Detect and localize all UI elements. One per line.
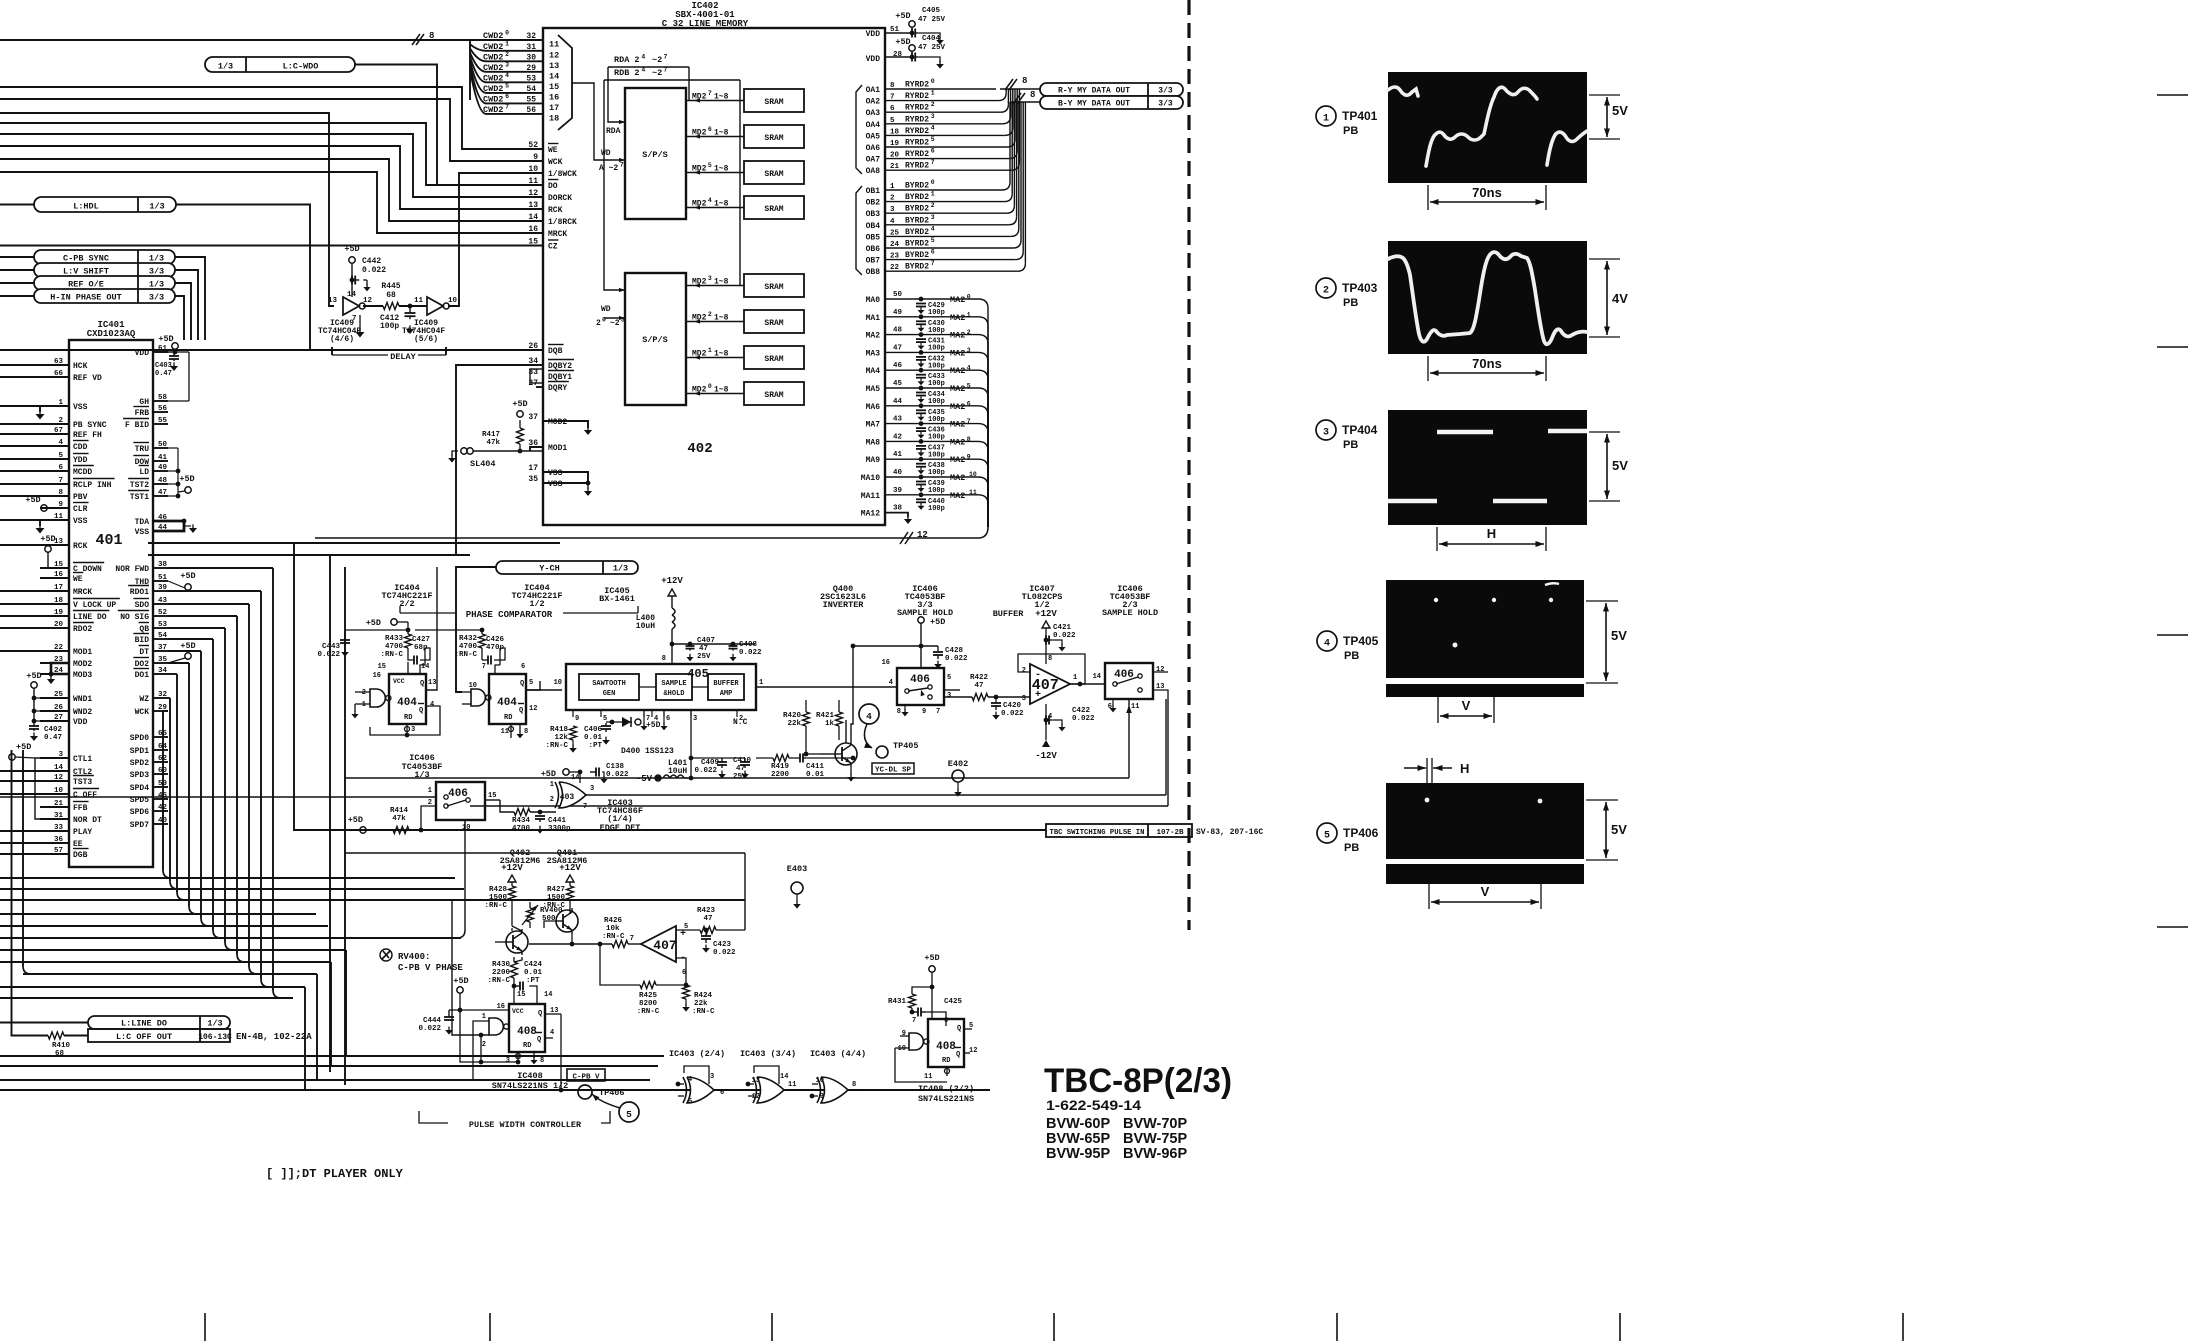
feedback strap MOD2 MOD3 (51, 663, 69, 674)
flip-flop 408 first (509, 1004, 545, 1052)
svg-text:MA4: MA4 (866, 367, 881, 376)
svg-text:100p: 100p (928, 362, 945, 370)
svg-text:SN74LS221NS: SN74LS221NS (918, 1094, 974, 1104)
svg-text:TP406: TP406 (599, 1088, 625, 1098)
svg-text:4: 4 (58, 439, 63, 447)
svg-text:47: 47 (736, 765, 745, 773)
svg-text:+5D: +5D (366, 618, 381, 628)
svg-text:MA2: MA2 (950, 331, 965, 341)
svg-text:26: 26 (528, 342, 538, 351)
svg-text:DT: DT (139, 648, 149, 657)
svg-text::PT: :PT (526, 977, 540, 985)
scope label TP405 (1317, 631, 1337, 651)
svg-text:+5D: +5D (924, 953, 939, 963)
svg-text:SV-83, 207-16C: SV-83, 207-16C (1196, 828, 1263, 837)
svg-text:VDD: VDD (866, 30, 881, 39)
svg-text:Q: Q (957, 1025, 961, 1033)
svg-text:PB: PB (1343, 439, 1358, 451)
svg-text:CWD2: CWD2 (483, 52, 503, 62)
svg-text:+5D: +5D (180, 641, 195, 651)
svg-text:50: 50 (893, 291, 903, 299)
svg-text:L:C OFF OUT: L:C OFF OUT (116, 1032, 172, 1042)
svg-text:2200: 2200 (771, 771, 790, 779)
svg-text:30: 30 (526, 53, 536, 62)
svg-text:403: 403 (560, 793, 575, 802)
svg-text:17: 17 (549, 103, 559, 113)
capacitor C410 47 25V (744, 758, 746, 762)
svg-text:WND2: WND2 (73, 708, 92, 717)
svg-text:OB1: OB1 (866, 187, 881, 196)
svg-text:MA2: MA2 (950, 402, 965, 412)
svg-text:RYRD2: RYRD2 (905, 92, 929, 101)
svg-text::RN-C: :RN-C (545, 742, 568, 750)
svg-text:TRU: TRU (135, 445, 150, 454)
svg-text:32: 32 (158, 691, 168, 699)
diode D400 1SS123 (610, 720, 615, 725)
svg-text:+5D: +5D (541, 769, 556, 779)
svg-text:PHASE COMPARATOR: PHASE COMPARATOR (466, 610, 553, 620)
svg-text:TBC-8P(2/3): TBC-8P(2/3) (1044, 1062, 1232, 1100)
oscillogram photo TP403 (1388, 241, 1587, 354)
svg-text:12k: 12k (554, 734, 568, 742)
svg-text:MA3: MA3 (866, 349, 881, 358)
power +5D TST3 area (9, 754, 15, 760)
svg-text:C410: C410 (733, 757, 752, 765)
svg-text:67: 67 (54, 427, 63, 435)
svg-text:MA2: MA2 (950, 455, 965, 465)
oscillogram photo TP404 (1388, 410, 1587, 525)
H arrow TP406 (1426, 758, 1428, 783)
svg-text:47: 47 (158, 489, 167, 497)
svg-text:100p: 100p (928, 309, 945, 317)
svg-text:21: 21 (54, 800, 64, 808)
svg-text:MA2: MA2 (950, 473, 965, 483)
svg-text:0.022: 0.022 (739, 649, 762, 657)
svg-text:0.022: 0.022 (362, 266, 386, 275)
svg-text:HCK: HCK (73, 362, 88, 371)
svg-text:H: H (1487, 526, 1496, 541)
svg-text:MD2: MD2 (692, 129, 707, 138)
ground pins 7 4 6 (643, 710, 645, 724)
svg-text:TDA: TDA (135, 518, 150, 527)
svg-text:CXD1023AQ: CXD1023AQ (87, 329, 136, 339)
svg-text:SAMPLE HOLD: SAMPLE HOLD (1102, 608, 1158, 618)
label C-PB V box (567, 1069, 605, 1081)
svg-text:BYRD2: BYRD2 (905, 216, 929, 225)
svg-text:BVW-60P: BVW-60P (1046, 1116, 1110, 1132)
5V arrow TP401 (1589, 94, 1620, 96)
svg-text:+5D: +5D (25, 495, 40, 505)
svg-text:RYRD2: RYRD2 (905, 104, 929, 113)
svg-text:A ~2: A ~2 (599, 164, 618, 173)
scope label TP403 (1316, 278, 1336, 298)
svg-text:2: 2 (596, 319, 601, 328)
svg-text:Q: Q (956, 1051, 960, 1059)
svg-text:5: 5 (947, 674, 951, 682)
svg-text:16: 16 (882, 659, 890, 667)
svg-text:DO: DO (548, 182, 558, 191)
svg-text:1: 1 (58, 399, 63, 407)
svg-text:LINE DO: LINE DO (73, 613, 107, 622)
svg-text:56: 56 (526, 106, 536, 115)
svg-text:100p: 100p (928, 505, 945, 513)
svg-text:100p: 100p (928, 398, 945, 406)
svg-text:4: 4 (866, 711, 872, 722)
svg-text:8: 8 (897, 708, 901, 716)
svg-text:20: 20 (54, 621, 64, 629)
svg-text:56: 56 (158, 405, 168, 413)
V arrow TP405 (1437, 697, 1439, 723)
resistor R428 1500 (509, 886, 516, 900)
svg-text:41: 41 (158, 454, 168, 462)
svg-text:8: 8 (1022, 76, 1027, 86)
svg-text:C402: C402 (44, 726, 63, 734)
wire 407-2 +input R423 (676, 929, 700, 931)
connector pill L:C-WDO (205, 57, 355, 72)
svg-text:C443: C443 (322, 643, 341, 651)
svg-text:3: 3 (411, 726, 415, 734)
svg-text:0: 0 (708, 383, 712, 390)
svg-text:8: 8 (58, 489, 63, 497)
wire bundle CWD2 fan (470, 39, 543, 41)
vertical long wires (148, 542, 560, 544)
svg-text:12: 12 (363, 297, 373, 305)
svg-text:7: 7 (931, 159, 935, 166)
svg-text::RN-C: :RN-C (692, 1008, 715, 1016)
capacitor C420 0.022 (995, 697, 997, 703)
svg-text:1: 1 (482, 1013, 486, 1021)
svg-text:25V: 25V (697, 653, 711, 661)
XOR gate IC403 2/4 (687, 1077, 714, 1103)
svg-text:QB: QB (139, 625, 149, 634)
svg-text:VCC: VCC (512, 1008, 524, 1015)
power +5D at C DOWN (45, 546, 51, 552)
resistor R424 22k (683, 985, 690, 999)
svg-text:47 25V: 47 25V (918, 16, 946, 24)
wire pin3 row (460, 1010, 518, 1062)
svg-text:PB: PB (1343, 125, 1358, 137)
svg-text:22k: 22k (694, 1000, 708, 1008)
svg-text:WD: WD (601, 305, 611, 314)
svg-text:1~8: 1~8 (714, 129, 729, 138)
power +5D delay (349, 257, 355, 263)
svg-text:C-PB V: C-PB V (572, 1074, 600, 1082)
svg-text:3: 3 (693, 715, 697, 723)
svg-text:6: 6 (521, 663, 525, 671)
ground VSS pin11 (39, 520, 41, 526)
svg-text:16: 16 (497, 1003, 505, 1011)
svg-text:MA11: MA11 (861, 492, 880, 501)
XOR gate IC403 3/4 (757, 1077, 784, 1103)
svg-text:68: 68 (386, 291, 396, 300)
svg-text:55: 55 (526, 95, 536, 104)
resistor R418 12k (570, 726, 577, 740)
svg-text:CWD2: CWD2 (483, 42, 503, 52)
svg-text:35: 35 (528, 475, 538, 484)
capacitor C441 3300p (539, 815, 541, 817)
svg-text:0: 0 (505, 30, 509, 37)
svg-text:7: 7 (630, 935, 634, 943)
svg-text:53: 53 (526, 74, 536, 83)
svg-text:Q: Q (520, 680, 524, 688)
svg-text:0: 0 (967, 294, 971, 301)
svg-text:10: 10 (898, 1045, 906, 1053)
svg-text:8: 8 (662, 655, 666, 663)
wire into 406-1 (0, 796, 436, 798)
svg-text:MA9: MA9 (866, 456, 881, 465)
svg-text:SRAM: SRAM (764, 355, 783, 364)
CTL pin group strap (35, 758, 69, 819)
svg-text:SL404: SL404 (470, 459, 496, 469)
wire 406 pin3 to R422 (944, 696, 972, 698)
svg-text:12: 12 (969, 1047, 977, 1055)
svg-text:TST3: TST3 (73, 778, 92, 787)
svg-text:407: 407 (653, 938, 676, 953)
svg-text:EDGE DET: EDGE DET (600, 823, 641, 833)
svg-text:1: 1 (708, 347, 712, 354)
svg-text:40: 40 (893, 469, 903, 477)
svg-text:VSS: VSS (73, 517, 88, 526)
svg-text:1: 1 (550, 781, 554, 789)
svg-text:3/3: 3/3 (149, 267, 164, 277)
svg-text:TST1: TST1 (130, 493, 149, 502)
wires 404 first (407, 662, 409, 674)
svg-text:1/3: 1/3 (414, 770, 429, 780)
svg-text:SRAM: SRAM (764, 391, 783, 400)
svg-text:1~8: 1~8 (714, 200, 729, 209)
svg-text:3: 3 (506, 1057, 510, 1065)
svg-text:14: 14 (549, 71, 559, 81)
registration tick marks bottom edge (204, 1313, 206, 1341)
svg-text:OA8: OA8 (866, 167, 881, 176)
wire staircase to IC402 control pins (0, 87, 543, 149)
svg-text:C406: C406 (584, 726, 603, 734)
svg-text:MA12: MA12 (861, 510, 880, 519)
power +5D at IC401 VDD (172, 343, 178, 349)
svg-text:DQBY1: DQBY1 (548, 373, 572, 382)
svg-text:12: 12 (917, 530, 928, 540)
svg-text:RYRD2: RYRD2 (905, 115, 929, 124)
resistor R421 1k (836, 712, 843, 726)
svg-text:1/2: 1/2 (529, 599, 544, 609)
svg-text:+5D: +5D (646, 721, 661, 730)
svg-text:MA2: MA2 (950, 491, 965, 501)
svg-text:12: 12 (1156, 666, 1164, 674)
capacitor C403 0.47 (173, 352, 175, 356)
svg-text:CZ: CZ (548, 243, 558, 252)
svg-text:MOD2: MOD2 (73, 660, 92, 669)
svg-text:1/3: 1/3 (207, 1019, 222, 1029)
resistor R422 47 (972, 694, 988, 701)
svg-text:10: 10 (54, 787, 64, 795)
svg-text:14: 14 (571, 774, 579, 782)
svg-text:7: 7 (583, 803, 587, 811)
svg-text:-5V: -5V (636, 774, 653, 784)
svg-text:MA1: MA1 (866, 314, 881, 323)
svg-text:SRAM: SRAM (764, 319, 783, 328)
svg-text:14: 14 (528, 213, 538, 222)
svg-text:3: 3 (947, 692, 951, 700)
svg-text:FFB: FFB (73, 804, 88, 813)
svg-text:C425: C425 (944, 998, 963, 1006)
svg-text:H: H (1460, 761, 1469, 776)
svg-text:2: 2 (482, 1041, 486, 1049)
svg-text:8: 8 (1048, 655, 1052, 663)
svg-text:5: 5 (688, 1098, 692, 1106)
svg-text:VSS: VSS (73, 403, 88, 412)
svg-text:2: 2 (931, 101, 935, 108)
NAND gate at 404 second (471, 689, 485, 706)
svg-text:+5D: +5D (26, 671, 41, 681)
svg-text:R425: R425 (639, 992, 658, 1000)
svg-text:MOD1: MOD1 (548, 444, 567, 453)
svg-text:E402: E402 (948, 759, 968, 769)
svg-text:18: 18 (54, 597, 64, 605)
svg-text:SPD7: SPD7 (130, 821, 149, 830)
pulse width controller bracket (419, 1111, 448, 1123)
svg-text:49: 49 (893, 309, 903, 317)
svg-text:100p: 100p (928, 434, 945, 442)
resistor R427 1500 (567, 886, 574, 900)
svg-text:11: 11 (549, 40, 559, 50)
svg-text:100p: 100p (928, 416, 945, 424)
svg-text:49: 49 (158, 464, 168, 472)
capacitor C444 0.022 (448, 1010, 450, 1017)
svg-text:OB4: OB4 (866, 222, 881, 231)
svg-text:8200: 8200 (639, 1000, 658, 1008)
svg-text:4: 4 (1324, 639, 1330, 650)
IC401 right +5D at TST1 (185, 487, 191, 493)
svg-text:1/3: 1/3 (149, 280, 164, 290)
svg-text:C138: C138 (606, 763, 625, 771)
connector pill REF O/E (34, 276, 175, 290)
svg-text:1/3: 1/3 (613, 564, 628, 574)
svg-text:55: 55 (158, 417, 168, 425)
svg-text:RD: RD (523, 1042, 531, 1050)
svg-text:2: 2 (1323, 286, 1329, 297)
svg-text:0.022: 0.022 (317, 651, 340, 659)
RV400 note (380, 949, 392, 961)
405 bottom pins (572, 710, 574, 717)
svg-text:8: 8 (967, 436, 971, 443)
svg-text:1: 1 (931, 90, 935, 97)
svg-text:BVW-65P: BVW-65P (1046, 1131, 1110, 1147)
svg-text:RYRD2: RYRD2 (905, 139, 929, 148)
svg-text:SPD3: SPD3 (130, 771, 149, 780)
wire fan from IC401 to lower bus (0, 877, 455, 879)
svg-text:VSS: VSS (135, 528, 150, 537)
svg-text:OA6: OA6 (866, 144, 881, 153)
svg-text:MOD2: MOD2 (548, 418, 567, 427)
svg-text:PB: PB (1343, 297, 1358, 309)
svg-text:1-622-549-14: 1-622-549-14 (1046, 1097, 1141, 1113)
delay bracket (331, 347, 333, 355)
wire 406-1 out through R434 (485, 799, 500, 801)
resistor R434 4700 (514, 809, 530, 816)
svg-text:15: 15 (488, 792, 496, 800)
wires 408 (545, 1013, 561, 1015)
svg-text:3: 3 (708, 275, 712, 282)
svg-text:11: 11 (924, 1073, 932, 1081)
svg-text:[ ]];DT PLAYER ONLY: [ ]];DT PLAYER ONLY (266, 1167, 404, 1181)
block S/P/S upper (625, 88, 686, 219)
svg-text:8: 8 (429, 31, 434, 41)
svg-text:12: 12 (549, 50, 559, 60)
svg-text:4: 4 (889, 679, 893, 687)
svg-text:45: 45 (893, 380, 903, 388)
svg-text:RYRD2: RYRD2 (905, 81, 929, 90)
svg-text:CWD2: CWD2 (483, 31, 503, 41)
svg-text:SRAM: SRAM (764, 205, 783, 214)
svg-text:1/3: 1/3 (218, 62, 233, 72)
svg-text:16: 16 (54, 571, 64, 579)
svg-text:2/2: 2/2 (399, 599, 414, 609)
wire Q402 emitter to opamp (529, 943, 612, 945)
svg-text:52: 52 (528, 141, 538, 150)
svg-text:MD2: MD2 (692, 314, 707, 323)
svg-text:47 25V: 47 25V (918, 44, 946, 52)
svg-text:OB6: OB6 (866, 245, 881, 254)
svg-text:401: 401 (95, 532, 122, 549)
scope label TP404 (1316, 420, 1336, 440)
svg-text:CWD2: CWD2 (483, 84, 503, 94)
svg-text:R-Y MY DATA OUT: R-Y MY DATA OUT (1058, 87, 1130, 96)
svg-text:R430: R430 (492, 961, 511, 969)
wire 407 out (1070, 683, 1105, 685)
svg-text:100p: 100p (928, 380, 945, 388)
svg-text:1/3: 1/3 (149, 202, 164, 212)
svg-text:Q: Q (538, 1010, 542, 1018)
switch 406 sample hold 2/3 (1105, 663, 1153, 699)
svg-text:V: V (1481, 884, 1490, 899)
svg-text:N.C: N.C (733, 718, 748, 727)
svg-text:BVW-75P: BVW-75P (1123, 1131, 1187, 1147)
svg-text:52: 52 (158, 609, 168, 617)
407-2 feedback R425 (656, 958, 686, 985)
svg-text:+: + (1035, 690, 1041, 701)
svg-text:68: 68 (55, 1050, 65, 1058)
svg-text:RD: RD (942, 1057, 950, 1065)
variable resistor RV400 500 (527, 908, 534, 922)
XOR gate 403 (559, 782, 586, 808)
svg-text:0.01: 0.01 (806, 771, 825, 779)
svg-text:22: 22 (54, 644, 64, 652)
svg-text:+5D: +5D (179, 474, 194, 484)
svg-text:1/8WCK: 1/8WCK (548, 170, 577, 179)
flip-flop 404 second (489, 674, 526, 724)
svg-text:BID: BID (135, 636, 150, 645)
connector pill H-IN PHASE OUT (34, 289, 175, 303)
svg-text:47: 47 (974, 682, 983, 690)
connector pill L:HDL (34, 197, 176, 212)
svg-text:RCLP INH: RCLP INH (73, 481, 112, 490)
wire 405 out to 406 (756, 686, 897, 688)
svg-text:B-Y MY DATA OUT: B-Y MY DATA OUT (1058, 100, 1130, 109)
svg-text:TP403: TP403 (1342, 281, 1378, 295)
resistor R426 10k (612, 941, 628, 948)
svg-text:404: 404 (497, 697, 517, 709)
svg-text:RYRD2: RYRD2 (905, 162, 929, 171)
svg-text:12: 12 (54, 774, 64, 782)
power +5D SL404 (517, 411, 523, 417)
svg-text::RN-C: :RN-C (454, 651, 477, 659)
svg-text:10k: 10k (606, 925, 620, 933)
svg-text:OA5: OA5 (866, 132, 881, 141)
svg-text:MA2: MA2 (950, 366, 965, 376)
4V arrow TP403 (1589, 258, 1620, 260)
capacitor C426 470p (487, 659, 489, 661)
svg-text:5: 5 (1324, 831, 1330, 842)
